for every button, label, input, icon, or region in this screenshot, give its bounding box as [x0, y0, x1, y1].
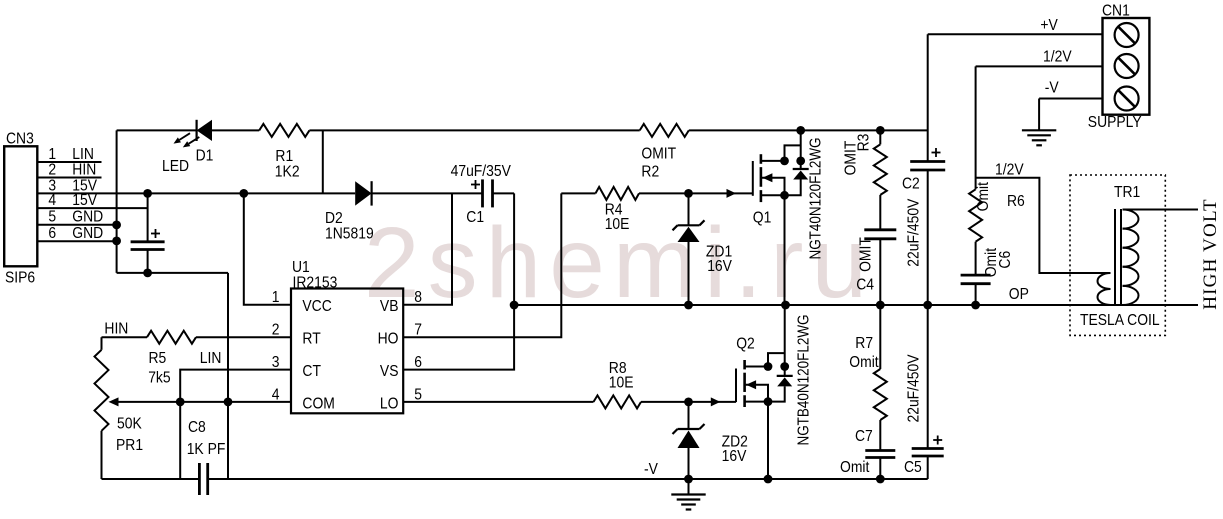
svg-text:C8: C8 — [188, 418, 206, 436]
svg-text:-V: -V — [1045, 79, 1059, 97]
svg-text:R2: R2 — [641, 163, 659, 181]
svg-text:RT: RT — [302, 330, 320, 348]
svg-text:C5: C5 — [904, 458, 922, 476]
svg-text:15V: 15V — [72, 191, 97, 209]
svg-text:NGTB40N120FL2WG: NGTB40N120FL2WG — [796, 314, 813, 445]
svg-text:1N5819: 1N5819 — [325, 225, 374, 243]
svg-text:1K PF: 1K PF — [187, 440, 226, 458]
svg-text:3: 3 — [272, 353, 280, 371]
svg-text:5: 5 — [48, 208, 56, 226]
svg-text:47uF/35V: 47uF/35V — [451, 162, 511, 180]
svg-text:R7: R7 — [855, 334, 873, 352]
svg-text:OMIT: OMIT — [641, 145, 676, 163]
svg-text:6: 6 — [414, 353, 422, 371]
svg-text:PR1: PR1 — [116, 436, 143, 454]
svg-text:Omit: Omit — [849, 353, 879, 371]
svg-text:16V: 16V — [707, 257, 732, 275]
svg-text:CT: CT — [302, 362, 321, 380]
svg-text:R6: R6 — [1007, 192, 1025, 210]
svg-text:50K: 50K — [117, 415, 142, 433]
svg-text:HIN: HIN — [104, 320, 128, 338]
svg-text:5: 5 — [414, 385, 422, 403]
svg-text:NGT40N120FL2WG: NGT40N120FL2WG — [808, 137, 825, 259]
svg-text:COM: COM — [302, 394, 334, 412]
svg-text:OMIT: OMIT — [857, 237, 875, 272]
svg-text:2: 2 — [272, 321, 280, 339]
svg-text:IR2153: IR2153 — [293, 274, 338, 292]
svg-text:VS: VS — [380, 362, 399, 380]
svg-text:10E: 10E — [609, 374, 634, 392]
svg-text:Q2: Q2 — [736, 335, 755, 353]
svg-text:C1: C1 — [466, 208, 484, 226]
svg-text:4: 4 — [48, 191, 56, 209]
svg-text:4: 4 — [272, 385, 280, 403]
svg-text:7k5: 7k5 — [148, 369, 170, 387]
svg-text:SIP6: SIP6 — [5, 269, 35, 287]
svg-text:CN3: CN3 — [6, 130, 34, 148]
svg-text:GND: GND — [72, 224, 103, 242]
svg-text:C6: C6 — [996, 251, 1014, 269]
svg-text:22uF/450V: 22uF/450V — [905, 199, 923, 267]
svg-text:+V: +V — [1040, 16, 1057, 34]
svg-text:1: 1 — [272, 288, 280, 306]
svg-text:1/2V: 1/2V — [995, 161, 1024, 179]
svg-text:OMIT: OMIT — [842, 141, 860, 176]
svg-text:HO: HO — [378, 330, 399, 348]
svg-text:VB: VB — [380, 297, 399, 315]
svg-text:-V: -V — [644, 460, 658, 478]
svg-text:CN1: CN1 — [1102, 2, 1130, 20]
svg-text:LIN: LIN — [200, 349, 222, 367]
svg-text:1/2V: 1/2V — [1043, 48, 1072, 66]
svg-text:VCC: VCC — [302, 297, 332, 315]
svg-text:TR1: TR1 — [1114, 183, 1140, 201]
svg-text:LED: LED — [162, 157, 189, 175]
svg-text:Q1: Q1 — [753, 209, 772, 227]
svg-text:OP: OP — [1009, 285, 1029, 303]
svg-text:R5: R5 — [149, 349, 167, 367]
svg-text:1K2: 1K2 — [275, 163, 300, 181]
svg-text:10E: 10E — [605, 215, 630, 233]
svg-text:C2: C2 — [902, 175, 920, 193]
svg-text:6: 6 — [48, 224, 56, 242]
svg-text:LO: LO — [380, 394, 399, 412]
svg-text:Omit: Omit — [974, 181, 992, 211]
svg-text:16V: 16V — [722, 447, 747, 465]
svg-text:C7: C7 — [855, 427, 873, 445]
svg-text:GND: GND — [72, 208, 103, 226]
svg-text:TESLA COIL: TESLA COIL — [1080, 311, 1160, 329]
svg-text:C4: C4 — [856, 276, 874, 294]
svg-text:7: 7 — [414, 321, 422, 339]
svg-text:HIGH VOLT: HIGH VOLT — [1200, 198, 1221, 310]
svg-text:22uF/450V: 22uF/450V — [905, 354, 923, 422]
svg-text:SUPPLY: SUPPLY — [1088, 113, 1142, 131]
svg-text:Omit: Omit — [840, 458, 870, 476]
svg-text:D1: D1 — [196, 146, 214, 164]
svg-text:8: 8 — [414, 288, 422, 306]
